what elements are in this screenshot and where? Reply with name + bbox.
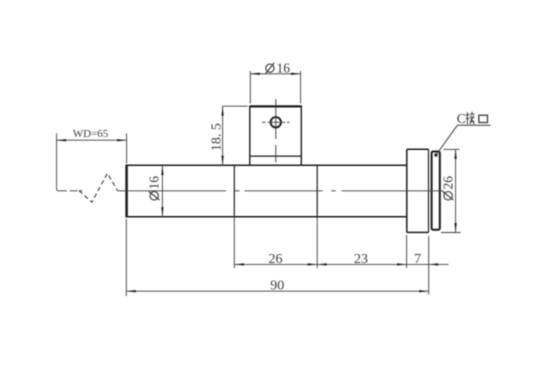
dimension D16 tube — [161, 166, 163, 217]
break zigzag — [79, 173, 118, 202]
arrow WD right — [117, 139, 127, 141]
label D16 top — [266, 63, 274, 74]
C-mount ring — [432, 152, 440, 230]
dimension 26 / 23 / 7 — [234, 217, 448, 295]
svg-text:23: 23 — [354, 252, 368, 267]
svg-text:16: 16 — [147, 176, 162, 190]
C-mount leader — [434, 153, 437, 156]
joint edge at x=234 — [233, 165, 235, 217]
lens body outline — [126, 165, 407, 218]
glyph kou — [479, 115, 488, 122]
arrow WD left — [57, 139, 67, 141]
block base line — [250, 155, 301, 157]
hole crosshairs — [262, 99, 290, 162]
svg-text:WD=65: WD=65 — [73, 128, 109, 140]
svg-text:C: C — [457, 111, 466, 126]
dimension D16 top — [250, 71, 300, 104]
dimension 90 — [126, 219, 428, 296]
dimension 18.5 — [223, 106, 248, 165]
top block — [250, 106, 301, 166]
joint edge at x=317 — [316, 165, 318, 217]
glyph jie — [466, 112, 475, 124]
body top edge — [126, 164, 407, 166]
svg-text:26: 26 — [269, 252, 283, 267]
svg-text:18. 5: 18. 5 — [210, 123, 225, 151]
svg-text:26: 26 — [440, 176, 455, 190]
flange — [407, 149, 429, 232]
body bottom edge — [126, 216, 407, 218]
dimension WD=65 — [57, 134, 127, 191]
svg-text:7: 7 — [414, 252, 421, 267]
label D26 — [440, 176, 455, 200]
screw hole — [271, 117, 281, 127]
horizontal centerline — [57, 190, 444, 192]
label D16 tube — [147, 176, 162, 200]
svg-text:16: 16 — [277, 61, 291, 76]
tube left face (thick) — [125, 165, 128, 218]
dimension D26 — [441, 149, 461, 232]
svg-text:90: 90 — [270, 279, 284, 294]
